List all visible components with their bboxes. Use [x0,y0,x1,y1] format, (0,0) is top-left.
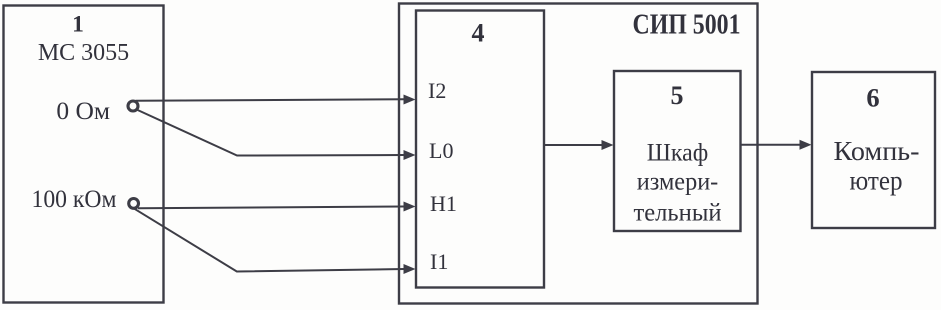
computer block 6 [812,72,935,228]
value label МС 3055 [38,40,129,66]
svg-text:ютер: ютер [850,165,903,196]
enclosure box СИП 5001 [399,4,758,304]
svg-text:СИП 5001: СИП 5001 [633,10,741,41]
svg-text:5: 5 [671,81,684,110]
measuring cabinet block 5 [614,71,741,231]
label 5 [671,81,684,110]
svg-text:0 Ом: 0 Ом [56,96,110,125]
svg-text:6: 6 [866,83,879,113]
terminal circle node (0 Ом output) [128,101,138,111]
wire 0 Ом terminal to pin I2 [136,95,416,105]
connector block 4 [416,11,544,288]
caption Шкаф измерительный [634,140,722,227]
terminal circle node (100 кОм output) [129,199,139,209]
wire block 5 to block 6 [741,140,812,150]
svg-text:Компь-: Компь- [834,135,920,166]
label СИП 5001 [633,10,741,41]
wire 0 Ом terminal to pin L0 (diagonal then horizontal) [137,110,416,161]
svg-text:L0: L0 [429,138,453,163]
terminal label 100 кОм [32,184,117,213]
svg-text:МС 3055: МС 3055 [38,40,129,66]
svg-text:Шкаф: Шкаф [647,140,709,167]
pin label H1 [430,191,457,216]
label 1 [72,12,84,38]
svg-text:тельный: тельный [634,200,722,227]
wire 100 кОм terminal to pin H1 [138,202,416,212]
caption Компьютер [834,135,920,196]
svg-text:100 кОм: 100 кОм [32,184,117,213]
svg-text:1: 1 [72,12,84,38]
svg-text:измери-: измери- [637,169,719,196]
calibrator block 1 (МС 3055) [4,6,164,303]
wire 100 кОм terminal to pin I1 (diagonal then horizontal) [135,209,416,274]
svg-text:H1: H1 [430,191,457,216]
svg-text:I2: I2 [428,78,446,103]
svg-text:I1: I1 [430,249,448,274]
terminal label 0 Ом [56,96,110,125]
wire block 4 to block 5 [545,140,614,150]
label 6 [866,83,879,113]
pin label I2 [428,78,446,103]
svg-text:4: 4 [472,19,485,48]
pin label L0 [429,138,453,163]
pin label I1 [430,249,448,274]
label 4 [472,19,485,48]
